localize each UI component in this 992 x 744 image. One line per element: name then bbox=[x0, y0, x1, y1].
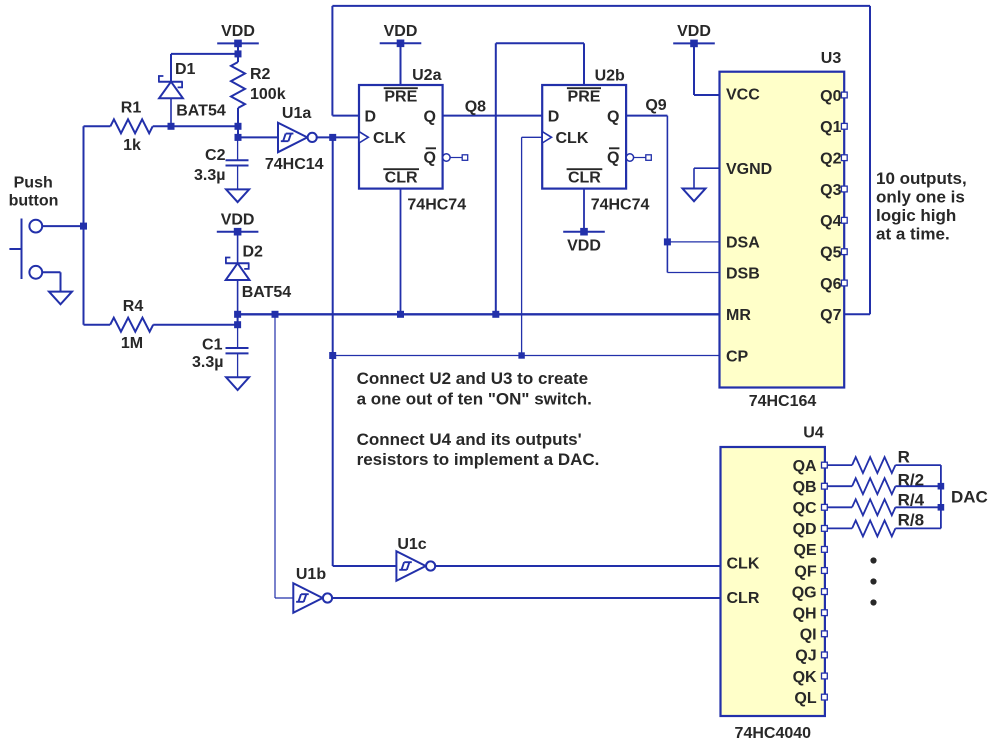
svg-text:VDD: VDD bbox=[221, 23, 255, 40]
svg-text:R2: R2 bbox=[250, 66, 271, 83]
junction reset node top bbox=[234, 311, 241, 318]
junction R4 node bbox=[234, 321, 241, 328]
svg-text:R1: R1 bbox=[121, 99, 142, 116]
wire Q9 vertical bbox=[666, 116, 668, 273]
svg-text:VDD: VDD bbox=[677, 23, 711, 40]
svg-text:U1c: U1c bbox=[397, 536, 426, 553]
wire reset node stack bbox=[237, 314, 239, 324]
wire U1a input bbox=[238, 136, 278, 138]
wire QA to resistor bbox=[827, 464, 852, 466]
wire VGND to ground bbox=[694, 167, 720, 169]
ellipsis dots for unused outputs bbox=[870, 557, 876, 563]
wire U1c input bbox=[333, 565, 397, 567]
svg-text:3.3µ: 3.3µ bbox=[194, 167, 225, 184]
svg-text:Connect U4 and its outputs': Connect U4 and its outputs' bbox=[357, 430, 582, 449]
inverter U1b 74HC14 bbox=[293, 583, 322, 613]
wire R4 row left bbox=[84, 324, 111, 326]
wire DSB bbox=[667, 272, 719, 274]
resistor R bbox=[852, 457, 895, 473]
diode D1 BAT54 bbox=[170, 98, 172, 126]
svg-text:QF: QF bbox=[794, 563, 816, 580]
wire U2b CLK vertical bbox=[521, 137, 523, 355]
wire resistor R/2 to DAC bus bbox=[895, 485, 941, 487]
svg-text:DSB: DSB bbox=[726, 265, 760, 282]
svg-text:74HC14: 74HC14 bbox=[265, 156, 324, 173]
wire resistor R to DAC bus bbox=[895, 464, 941, 466]
junction U2a CLR branch bbox=[397, 311, 404, 318]
pin CLK U2a bbox=[359, 132, 368, 143]
svg-text:PRE: PRE bbox=[384, 89, 417, 106]
svg-text:at a time.: at a time. bbox=[876, 224, 950, 243]
resistor R1 bbox=[110, 119, 152, 133]
svg-text:VDD: VDD bbox=[384, 23, 418, 40]
wire feedback right vertical bbox=[869, 6, 871, 314]
junction U1a output node bbox=[329, 134, 336, 141]
wire Q8 bbox=[443, 115, 543, 117]
wire U1a output to CLK U2a bbox=[316, 136, 359, 138]
svg-text:QK: QK bbox=[793, 669, 817, 686]
svg-text:D2: D2 bbox=[243, 244, 264, 261]
svg-text:Connect U2 and U3 to create: Connect U2 and U3 to create bbox=[357, 369, 588, 388]
svg-text:VDD: VDD bbox=[221, 212, 255, 229]
ground under push button bbox=[49, 292, 72, 305]
svg-text:VCC: VCC bbox=[726, 87, 760, 104]
svg-text:CLR: CLR bbox=[385, 170, 418, 187]
wire U1b output to CLR U4 bbox=[331, 597, 720, 599]
svg-text:CLR: CLR bbox=[568, 170, 601, 187]
junction CP branch bbox=[329, 352, 336, 359]
svg-text:DAC: DAC bbox=[951, 487, 988, 506]
svg-text:QD: QD bbox=[793, 521, 817, 538]
wire R2 bottom bbox=[237, 108, 239, 126]
wire CP row bbox=[333, 355, 720, 357]
wire U1c output to CLK U4 bbox=[435, 565, 721, 567]
svg-text:Q9: Q9 bbox=[645, 97, 666, 114]
junction push button node bbox=[80, 223, 87, 230]
wire R1 row left bbox=[84, 125, 111, 127]
svg-text:D1: D1 bbox=[175, 61, 196, 78]
resistor R/2 bbox=[852, 478, 895, 494]
wire U2a CLR to reset net bbox=[400, 189, 402, 315]
svg-text:Q: Q bbox=[607, 108, 619, 125]
svg-text:U1b: U1b bbox=[296, 566, 326, 583]
flip-flop U2a body bbox=[359, 85, 443, 189]
svg-text:CLR: CLR bbox=[727, 590, 760, 607]
svg-text:Q1: Q1 bbox=[820, 119, 841, 136]
wire D input U2a bbox=[332, 115, 359, 117]
svg-text:Q: Q bbox=[607, 149, 619, 166]
svg-text:C1: C1 bbox=[202, 337, 223, 354]
wire VDD to R2 bbox=[237, 43, 239, 62]
wire clock net vertical bbox=[332, 137, 334, 566]
wire QB to resistor bbox=[827, 485, 852, 487]
ground under C1 bbox=[226, 377, 249, 390]
inverter U1a 74HC14 bbox=[278, 123, 307, 153]
svg-text:BAT54: BAT54 bbox=[242, 284, 292, 301]
wire QD to resistor bbox=[827, 527, 852, 529]
wire VDD to U2a PRE bbox=[400, 43, 402, 85]
svg-text:CLK: CLK bbox=[727, 555, 760, 572]
IC U3 74HC164 body bbox=[720, 72, 845, 388]
wire resistor R/8 to DAC bus bbox=[895, 527, 941, 529]
svg-text:1M: 1M bbox=[121, 335, 143, 352]
svg-text:QB: QB bbox=[793, 479, 817, 496]
svg-text:BAT54: BAT54 bbox=[176, 102, 226, 119]
svg-text:U4: U4 bbox=[803, 425, 824, 442]
inverter U1c 74HC14 bbox=[396, 551, 425, 581]
svg-text:Q5: Q5 bbox=[820, 245, 841, 262]
ground at U3 VGND bbox=[683, 189, 706, 202]
wire resistor R/4 to DAC bus bbox=[895, 506, 941, 508]
wire Q7 to feedback bbox=[844, 313, 870, 315]
svg-text:10 outputs,: 10 outputs, bbox=[876, 169, 967, 188]
svg-text:100k: 100k bbox=[250, 86, 286, 103]
junction U2b CLK branch bbox=[518, 352, 524, 358]
ground under C2 bbox=[226, 189, 249, 202]
svg-text:QI: QI bbox=[800, 627, 817, 644]
svg-text:74HC74: 74HC74 bbox=[591, 197, 650, 214]
junction DAC bus QB bbox=[938, 483, 945, 490]
svg-text:logic high: logic high bbox=[876, 206, 956, 225]
wire U2b PRE drop bbox=[583, 43, 585, 85]
svg-text:U2a: U2a bbox=[412, 67, 441, 84]
svg-text:Push: Push bbox=[14, 174, 53, 191]
svg-text:VGND: VGND bbox=[726, 161, 772, 178]
svg-text:Q: Q bbox=[424, 108, 436, 125]
capacitor C1 bbox=[237, 325, 239, 348]
svg-text:74HC74: 74HC74 bbox=[407, 197, 466, 214]
svg-text:QC: QC bbox=[793, 500, 817, 517]
wire VDD to VCC bbox=[693, 43, 695, 95]
svg-text:CP: CP bbox=[726, 348, 749, 365]
svg-text:74HC164: 74HC164 bbox=[749, 393, 817, 410]
push button SW1 bbox=[29, 220, 42, 233]
junction DSA branch bbox=[664, 238, 671, 245]
svg-text:74HC4040: 74HC4040 bbox=[735, 725, 812, 742]
svg-text:Q4: Q4 bbox=[820, 213, 841, 230]
wire D2 anode down bbox=[237, 280, 239, 314]
diode D2 BAT54 bbox=[225, 262, 249, 264]
svg-text:Q: Q bbox=[424, 149, 436, 166]
svg-text:resistors to implement a DAC.: resistors to implement a DAC. bbox=[357, 450, 600, 469]
wire QC to resistor bbox=[827, 506, 852, 508]
resistor R/8 bbox=[852, 520, 895, 536]
flip-flop U2b body bbox=[542, 85, 626, 189]
svg-text:U3: U3 bbox=[821, 50, 842, 67]
svg-text:VDD: VDD bbox=[567, 238, 601, 255]
svg-text:1k: 1k bbox=[123, 137, 141, 154]
wire DAC bus bbox=[940, 465, 942, 528]
junction D1 VDD tee bbox=[235, 50, 242, 57]
wire Q9 bbox=[626, 115, 667, 117]
wire D1 cathode up bbox=[170, 54, 172, 82]
junction D1 anode node bbox=[168, 123, 175, 130]
svg-text:R/8: R/8 bbox=[898, 510, 924, 529]
pin CLK U2b bbox=[542, 132, 551, 143]
svg-text:C2: C2 bbox=[205, 147, 226, 164]
svg-text:QA: QA bbox=[793, 458, 817, 475]
svg-text:QE: QE bbox=[793, 542, 816, 559]
resistor R4 bbox=[110, 318, 153, 332]
wire D1 top to VDD node bbox=[171, 53, 238, 55]
wire U2b CLR down bbox=[583, 189, 585, 232]
wire feedback left vertical bbox=[331, 6, 333, 116]
junction R1 R2 node bbox=[235, 123, 242, 130]
svg-text:U1a: U1a bbox=[282, 105, 311, 122]
svg-text:R4: R4 bbox=[123, 298, 144, 315]
junction U1a input node bbox=[235, 134, 242, 141]
resistor R/4 bbox=[852, 499, 895, 515]
svg-text:Q2: Q2 bbox=[820, 151, 841, 168]
svg-text:a one out of ten "ON" switch.: a one out of ten "ON" switch. bbox=[357, 389, 592, 408]
svg-text:Q0: Q0 bbox=[820, 88, 841, 105]
svg-text:Q8: Q8 bbox=[465, 99, 486, 116]
svg-text:PRE: PRE bbox=[568, 89, 601, 106]
svg-text:R: R bbox=[898, 447, 910, 466]
wire push button bottom contact to ground bbox=[42, 271, 60, 273]
wire main left vertical bbox=[83, 126, 85, 324]
junction DAC bus QC bbox=[938, 504, 945, 511]
svg-text:D: D bbox=[548, 108, 560, 125]
wire U2b PRE vertical to reset net bbox=[495, 43, 497, 314]
capacitor C2 bbox=[237, 137, 239, 160]
svg-text:CLK: CLK bbox=[373, 130, 406, 147]
svg-text:Q7: Q7 bbox=[820, 307, 841, 324]
svg-text:MR: MR bbox=[726, 307, 751, 324]
resistor R2 bbox=[231, 62, 245, 108]
wire node stack bbox=[237, 126, 239, 137]
svg-text:D: D bbox=[365, 108, 377, 125]
wire R1 to D1 node bbox=[153, 125, 238, 127]
svg-text:QH: QH bbox=[793, 606, 817, 623]
junction U2b PRE branch bbox=[492, 311, 499, 318]
svg-text:Q3: Q3 bbox=[820, 182, 841, 199]
svg-text:CLK: CLK bbox=[556, 130, 589, 147]
wire feedback top bbox=[332, 5, 870, 7]
svg-text:QG: QG bbox=[792, 584, 817, 601]
svg-text:DSA: DSA bbox=[726, 235, 760, 252]
svg-text:QL: QL bbox=[794, 690, 816, 707]
wire U1b input vertical bbox=[274, 314, 276, 598]
svg-text:3.3µ: 3.3µ bbox=[192, 354, 223, 371]
wire MR reset net bbox=[238, 313, 720, 315]
svg-text:QJ: QJ bbox=[795, 648, 816, 665]
wire push button top contact to node bbox=[42, 225, 83, 227]
IC U4 74HC4040 body bbox=[721, 447, 825, 716]
svg-text:Q6: Q6 bbox=[820, 276, 841, 293]
wire R4 to reset node bbox=[153, 324, 237, 326]
svg-text:button: button bbox=[9, 193, 59, 210]
svg-text:U2b: U2b bbox=[595, 67, 625, 84]
wire DSA bbox=[667, 241, 719, 243]
wire U2b PRE horizontal bbox=[496, 42, 584, 44]
junction U1b branch bbox=[272, 311, 279, 318]
svg-text:only one is: only one is bbox=[876, 188, 965, 207]
wire VDD to D2 cathode bbox=[237, 232, 239, 264]
